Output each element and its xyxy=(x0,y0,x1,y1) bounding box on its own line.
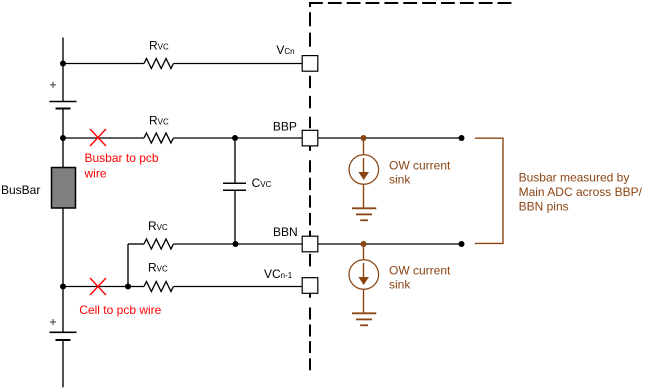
svg-text:BBP: BBP xyxy=(273,120,297,134)
svg-text:OW current: OW current xyxy=(389,159,451,173)
svg-text:Busbar to pcb: Busbar to pcb xyxy=(85,151,159,165)
svg-text:Main ADC across BBP/: Main ADC across BBP/ xyxy=(519,185,643,199)
svg-text:BBN: BBN xyxy=(273,225,298,239)
svg-text:wire: wire xyxy=(84,167,107,181)
svg-text:Busbar measured by: Busbar measured by xyxy=(519,171,630,185)
svg-text:sink: sink xyxy=(389,278,411,292)
svg-text:OW current: OW current xyxy=(389,264,451,278)
svg-text:Cell to pcb wire: Cell to pcb wire xyxy=(79,303,161,317)
svg-text:sink: sink xyxy=(389,173,411,187)
svg-text:BBN pins: BBN pins xyxy=(519,199,569,213)
svg-text:BusBar: BusBar xyxy=(1,183,40,197)
